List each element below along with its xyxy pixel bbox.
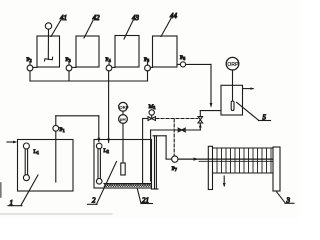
pump P1 (transfer pump tank 1 to tank 2): [53, 125, 65, 133]
pump P6 (transfer pump tank 44 to tank 5): [180, 55, 186, 67]
valve V2 (vertical valve on riser to tank 5): [198, 111, 203, 123]
pump P3 (dosing pump of tank 42): [66, 57, 72, 71]
tank 41 (dosing tank with stirrer): [37, 36, 60, 67]
svg-text:P4: P4: [106, 57, 111, 63]
electrode in tank 5: [231, 101, 234, 111]
probe stem into tank 5: [232, 70, 234, 101]
svg-text:ORP: ORP: [119, 105, 129, 110]
instrument ORP meter on tank 5: [226, 57, 239, 70]
svg-text:M1: M1: [149, 104, 156, 110]
svg-text:P3: P3: [66, 57, 71, 63]
svg-text:P1: P1: [60, 127, 65, 133]
svg-text:P6: P6: [180, 55, 185, 61]
filter press top rail: [213, 147, 274, 149]
stirrer shaft: [47, 29, 49, 59]
tank 2 (reaction tank): [94, 140, 152, 189]
svg-text:P2: P2: [27, 57, 32, 63]
pipe pump P5 to tank 44: [150, 66, 152, 68]
signal line (dashed) to pump P7: [173, 119, 175, 156]
pump P4 (dosing pump of tank 43): [106, 57, 112, 71]
tank 5 inlet pipe: [200, 110, 221, 112]
filter press bottom rail: [213, 172, 274, 174]
pipe pump P6 to tank 5 inlet: [186, 64, 213, 107]
pump P7 (filter press feed pump): [172, 156, 178, 172]
electrode in tank 2: [121, 163, 125, 175]
svg-text:P7: P7: [172, 166, 177, 172]
tank 5 outlet pipe: [243, 87, 255, 89]
valve V1 (horizontal valve on decant pipe): [178, 128, 185, 132]
valve M1 (motorized air valve): [148, 104, 155, 121]
tank 42: [76, 36, 99, 67]
instrument ORP meter on tank 2: [119, 102, 129, 111]
svg-text:ORP: ORP: [227, 62, 239, 68]
pump P2 (dosing pump of tank 41): [27, 57, 33, 71]
tank 5: [221, 85, 243, 115]
svg-text:41: 41: [60, 14, 67, 22]
instrument pH meter on tank 2: [119, 115, 128, 124]
svg-text:L1: L1: [34, 149, 39, 155]
riser pipe with up arrow: [199, 123, 202, 130]
inlet pipe with arrow into tank 1: [7, 141, 17, 144]
label 1: [8, 175, 38, 207]
outer wall pipe right of tank 2: [152, 136, 167, 189]
level gauge L2 in tank 2: [96, 143, 108, 184]
stirrer motor circle on tank 41: [45, 23, 51, 29]
svg-text:P5: P5: [144, 57, 149, 63]
svg-text:L2: L2: [104, 148, 109, 154]
filter press right plate and leg: [273, 147, 280, 191]
filtrate discharge arrow under press: [223, 176, 226, 187]
label 41: [51, 14, 67, 37]
label 2: [88, 162, 117, 205]
scan artifact streaks: [0, 183, 112, 214]
decant pipe from tank 2: [151, 130, 201, 181]
dosing drop pipe into tank 2: [107, 71, 110, 143]
dosing header pipe (bus): [30, 71, 148, 81]
label 3: [277, 192, 294, 205]
level gauge L1 in tank 1: [23, 143, 38, 181]
probe stem into tank 2: [122, 111, 124, 163]
air pipe from valve M1 to aerator: [143, 119, 148, 184]
label 21: [137, 189, 152, 205]
pipe pump P2 to tank 41: [33, 66, 37, 68]
label 44: [161, 12, 178, 37]
svg-text:42: 42: [93, 14, 101, 22]
filter press plates: [217, 148, 271, 173]
tank 43: [115, 36, 139, 68]
label 5: [237, 102, 271, 121]
aerator 21 at bottom of tank 2: [104, 184, 151, 187]
tank 44: [153, 36, 178, 67]
stirrer blade: [45, 57, 53, 61]
filter press 3 left plate: [208, 146, 212, 189]
svg-text:2: 2: [92, 196, 96, 204]
pipe tank 44 to pump P6: [177, 63, 180, 65]
feed pipe to filter press with arrow: [178, 158, 273, 162]
label 42: [84, 14, 100, 38]
svg-text:pH: pH: [120, 117, 127, 122]
signal line (dashed) M1 to valve V2: [156, 118, 198, 120]
pipe pump P3 to tank 42: [72, 66, 76, 68]
suction pipe in tank 1: [55, 131, 57, 182]
pipe pump P4 to tank 43: [112, 66, 115, 68]
pipe to pump P7: [166, 158, 172, 160]
label 43: [124, 14, 140, 39]
pump P5 (dosing pump of tank 44): [144, 57, 150, 71]
pipe pump P1 to tank 2: [56, 116, 100, 142]
tank 1 (equalization tank): [18, 140, 74, 192]
